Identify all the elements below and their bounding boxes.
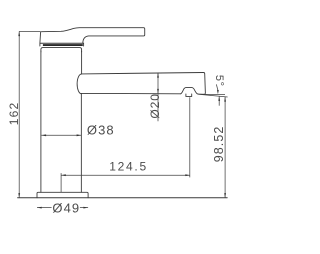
svg-text:5°: 5° xyxy=(213,75,225,87)
svg-text:Ø38: Ø38 xyxy=(87,123,115,138)
svg-text:98.52: 98.52 xyxy=(212,126,226,163)
svg-text:124.5: 124.5 xyxy=(109,160,148,174)
svg-text:Ø49: Ø49 xyxy=(52,200,80,215)
svg-text:Ø20: Ø20 xyxy=(148,93,162,118)
svg-text:162: 162 xyxy=(7,102,21,126)
